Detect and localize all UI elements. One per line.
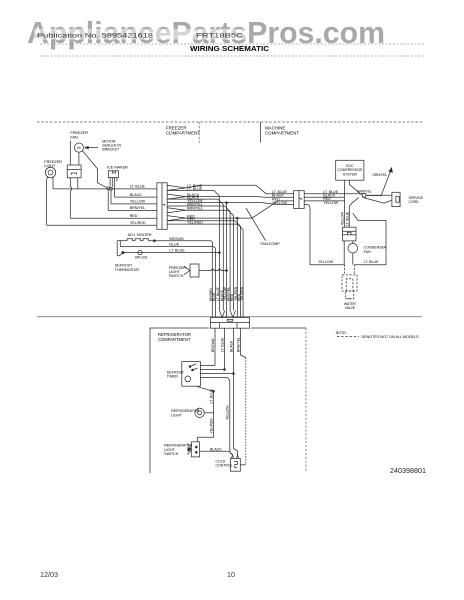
svg-text:BLACK: BLACK xyxy=(210,447,222,451)
water valve body xyxy=(342,275,357,291)
svg-text:CORD: CORD xyxy=(409,200,420,204)
svg-text:LT. BLUE: LT. BLUE xyxy=(364,260,380,264)
svg-text:SPLICE: SPLICE xyxy=(135,255,149,259)
cold control connections xyxy=(240,464,246,466)
machine harness connector block xyxy=(294,191,305,209)
timer contacts xyxy=(189,366,191,368)
compressor system box xyxy=(336,160,364,180)
wire BRN/YEL second drop to bundle xyxy=(186,210,234,310)
svg-text:CONTROL: CONTROL xyxy=(216,464,233,468)
svg-text:BLACK: BLACK xyxy=(230,340,234,352)
svg-text:BROWN: BROWN xyxy=(169,237,183,241)
wire row BRN/YEL left xyxy=(108,209,157,211)
wire row YELLOW left xyxy=(111,203,157,205)
wire fan to RED row (with hop) xyxy=(69,178,71,187)
svg-text:LT. BLUE: LT. BLUE xyxy=(221,337,225,352)
svg-text:M: M xyxy=(77,145,80,150)
freezer fan leads xyxy=(69,141,71,166)
freezer light bulb xyxy=(45,167,55,177)
svg-text:YELLOW: YELLOW xyxy=(340,211,344,226)
header dashed rule upper xyxy=(40,43,424,45)
compressor leads xyxy=(344,180,346,227)
svg-text:LT. BLUE: LT. BLUE xyxy=(346,211,350,226)
svg-text:ICE MAKER: ICE MAKER xyxy=(107,166,128,170)
wire YEL/RED drop to bundle xyxy=(186,224,243,317)
svg-text:YELLOW: YELLOW xyxy=(130,200,146,204)
wire BLACK drop to bundle xyxy=(186,199,223,310)
svg-text:BLUE: BLUE xyxy=(169,243,179,247)
wire YELLOW branch drop xyxy=(226,203,228,310)
svg-text:SWITCH: SWITCH xyxy=(169,274,184,278)
wire LT.BLUE to machine compartment xyxy=(186,185,294,194)
funnel exits right of connector xyxy=(167,185,186,190)
icemaker connector xyxy=(108,171,118,178)
svg-text:240398801: 240398801 xyxy=(390,466,426,475)
wire switch to cold control (BLACK) xyxy=(200,451,233,455)
svg-text:GRN/YEL: GRN/YEL xyxy=(372,173,387,177)
svg-text:RED: RED xyxy=(130,214,138,218)
svg-text:THERMOSTAT: THERMOSTAT xyxy=(115,268,141,272)
svg-text:BRN/YEL: BRN/YEL xyxy=(187,207,203,211)
svg-text:WIRING SCHEMATIC: WIRING SCHEMATIC xyxy=(190,46,269,53)
header white band xyxy=(34,29,249,40)
wire row YEL/RED left xyxy=(47,224,157,226)
divider line between top and refrigerator compartment xyxy=(37,316,422,318)
wire LT.BLUE right path xyxy=(353,213,386,265)
refrigerator compartment box right dashed xyxy=(305,328,307,471)
svg-text:LT. BLUE: LT. BLUE xyxy=(169,249,185,253)
wire lower to service cord xyxy=(364,198,392,204)
timer connections to verticals xyxy=(200,365,215,367)
svg-text:FRT18B5C: FRT18B5C xyxy=(196,32,244,39)
wire LT.BLUE heater row xyxy=(123,252,219,254)
wire row BLACK left xyxy=(115,196,157,198)
wire row RED left xyxy=(70,217,157,219)
top border freezer/machine compartments xyxy=(37,121,422,123)
svg-text:GRN/YEL: GRN/YEL xyxy=(357,189,372,193)
svg-text:YELLOW: YELLOW xyxy=(226,405,230,420)
svg-text:YELLOW: YELLOW xyxy=(318,260,334,264)
wire BLACK to machine compartment xyxy=(186,196,294,199)
svg-text:COMPARTMENT: COMPARTMENT xyxy=(158,337,191,342)
svg-text:LT. BLUE: LT. BLUE xyxy=(130,185,146,189)
svg-text:BRACKET: BRACKET xyxy=(102,148,120,152)
svg-text:BRN/YEL: BRN/YEL xyxy=(130,206,146,210)
wire YELLOW down the left of machine box xyxy=(304,204,344,264)
condenser fan motor xyxy=(343,241,345,265)
wire timer to refrigerator light xyxy=(196,386,214,413)
svg-text:SWITCH: SWITCH xyxy=(164,452,179,456)
refrigerator harness connector bar xyxy=(210,318,249,329)
wire RED drop to bundle xyxy=(236,218,238,317)
svg-text:YELLOW: YELLOW xyxy=(323,201,339,205)
defrost heater wire with element xyxy=(117,240,125,242)
cold control box xyxy=(231,458,241,471)
wire LT.BLUE drop to bundle xyxy=(186,191,219,311)
service cord plug xyxy=(392,192,400,206)
svg-text:BROWN: BROWN xyxy=(211,338,215,352)
motor annotation arrow xyxy=(86,147,98,149)
defrost timer box xyxy=(182,362,201,387)
svg-text:NOTE:: NOTE: xyxy=(336,331,347,335)
refrigerator light bulb xyxy=(195,408,204,417)
ground wire and arrow xyxy=(366,170,391,196)
wire junction to service cord xyxy=(366,194,392,196)
wires below connector bar xyxy=(214,328,216,365)
freezer fan motor circle xyxy=(74,143,83,152)
wire BLUE row xyxy=(120,246,213,248)
splice circle xyxy=(138,250,142,254)
freezer light switch box xyxy=(190,264,199,277)
freezer compartment label tick xyxy=(198,122,200,143)
icemaker pins xyxy=(109,178,111,187)
wire YELLOW to machine compartment xyxy=(186,203,294,205)
defrost thermostat xyxy=(116,241,118,256)
splice dots xyxy=(107,187,110,190)
svg-text:FAN/COMP: FAN/COMP xyxy=(261,242,281,246)
water valve dashed leads xyxy=(344,265,346,275)
wire RED to machine compartment xyxy=(186,201,294,218)
svg-text:YEL/RED: YEL/RED xyxy=(209,418,213,433)
svg-text:VALVE: VALVE xyxy=(345,306,356,310)
machine rows right of connector xyxy=(304,193,362,195)
refrigerator light switch xyxy=(191,442,199,457)
wire BRN/YEL drop to bundle xyxy=(186,206,230,311)
svg-text:FAN: FAN xyxy=(364,250,371,254)
wire row LT.BLUE left xyxy=(53,188,157,190)
label FAN/COMP annotation xyxy=(246,208,266,241)
wire fan diagonal to icemaker splice xyxy=(83,151,107,188)
machine compartment label tick xyxy=(260,122,262,143)
wire fan to LT.BLUE row xyxy=(77,178,79,189)
svg-text:REFRIGERATOR: REFRIGERATOR xyxy=(171,409,200,413)
svg-text:SYSTEM: SYSTEM xyxy=(343,172,357,176)
svg-text:Publication No. 5995421618: Publication No. 5995421618 xyxy=(37,32,154,39)
freezer fan connector box xyxy=(67,165,81,178)
svg-text:YELLOW: YELLOW xyxy=(272,201,288,205)
freezer harness connector block xyxy=(157,183,167,230)
condenser fan connector block xyxy=(343,227,357,241)
svg-text:FREEZER: FREEZER xyxy=(70,131,88,135)
svg-text:FAN: FAN xyxy=(70,136,78,140)
ground junction square xyxy=(362,194,366,198)
svg-text:LT. BLUE: LT. BLUE xyxy=(209,388,213,403)
svg-text:YEL/RED: YEL/RED xyxy=(187,220,203,224)
wire freezer light to YEL/RED row xyxy=(46,177,49,225)
refrigerator compartment box top-right xyxy=(251,327,306,329)
funnels into refrigerator connector xyxy=(219,311,224,318)
svg-text:10: 10 xyxy=(227,570,235,579)
svg-text:TIMER: TIMER xyxy=(167,375,179,379)
svg-text:BLACK: BLACK xyxy=(130,193,143,197)
wire RED second drop to bundle xyxy=(186,221,240,318)
svg-text:COMPARTMENT: COMPARTMENT xyxy=(166,130,200,135)
svg-text:YEL/RED: YEL/RED xyxy=(130,221,146,225)
refrigerator compartment box left xyxy=(150,328,209,473)
wire light switch to bundle xyxy=(199,269,223,270)
wire light down to switch xyxy=(197,413,213,442)
svg-text:LIGHT: LIGHT xyxy=(44,164,56,168)
svg-text:DENOTES NOT ON ALL MODELS.: DENOTES NOT ON ALL MODELS. xyxy=(362,335,420,339)
wire freezer light to LT.BLUE row xyxy=(52,177,54,189)
splice drop wires xyxy=(110,190,112,204)
svg-text:LIGHT: LIGHT xyxy=(171,414,182,418)
header dashed rule lower xyxy=(40,55,424,57)
svg-text:ADJ. HEATER: ADJ. HEATER xyxy=(128,233,152,237)
svg-text:BRN/YEL: BRN/YEL xyxy=(237,337,241,352)
svg-text:LT. BLUE: LT. BLUE xyxy=(187,187,203,191)
svg-text:YEL/RED: YEL/RED xyxy=(240,286,244,301)
svg-text:12/03: 12/03 xyxy=(40,570,58,579)
svg-text:COMPARTMENT: COMPARTMENT xyxy=(265,130,299,135)
